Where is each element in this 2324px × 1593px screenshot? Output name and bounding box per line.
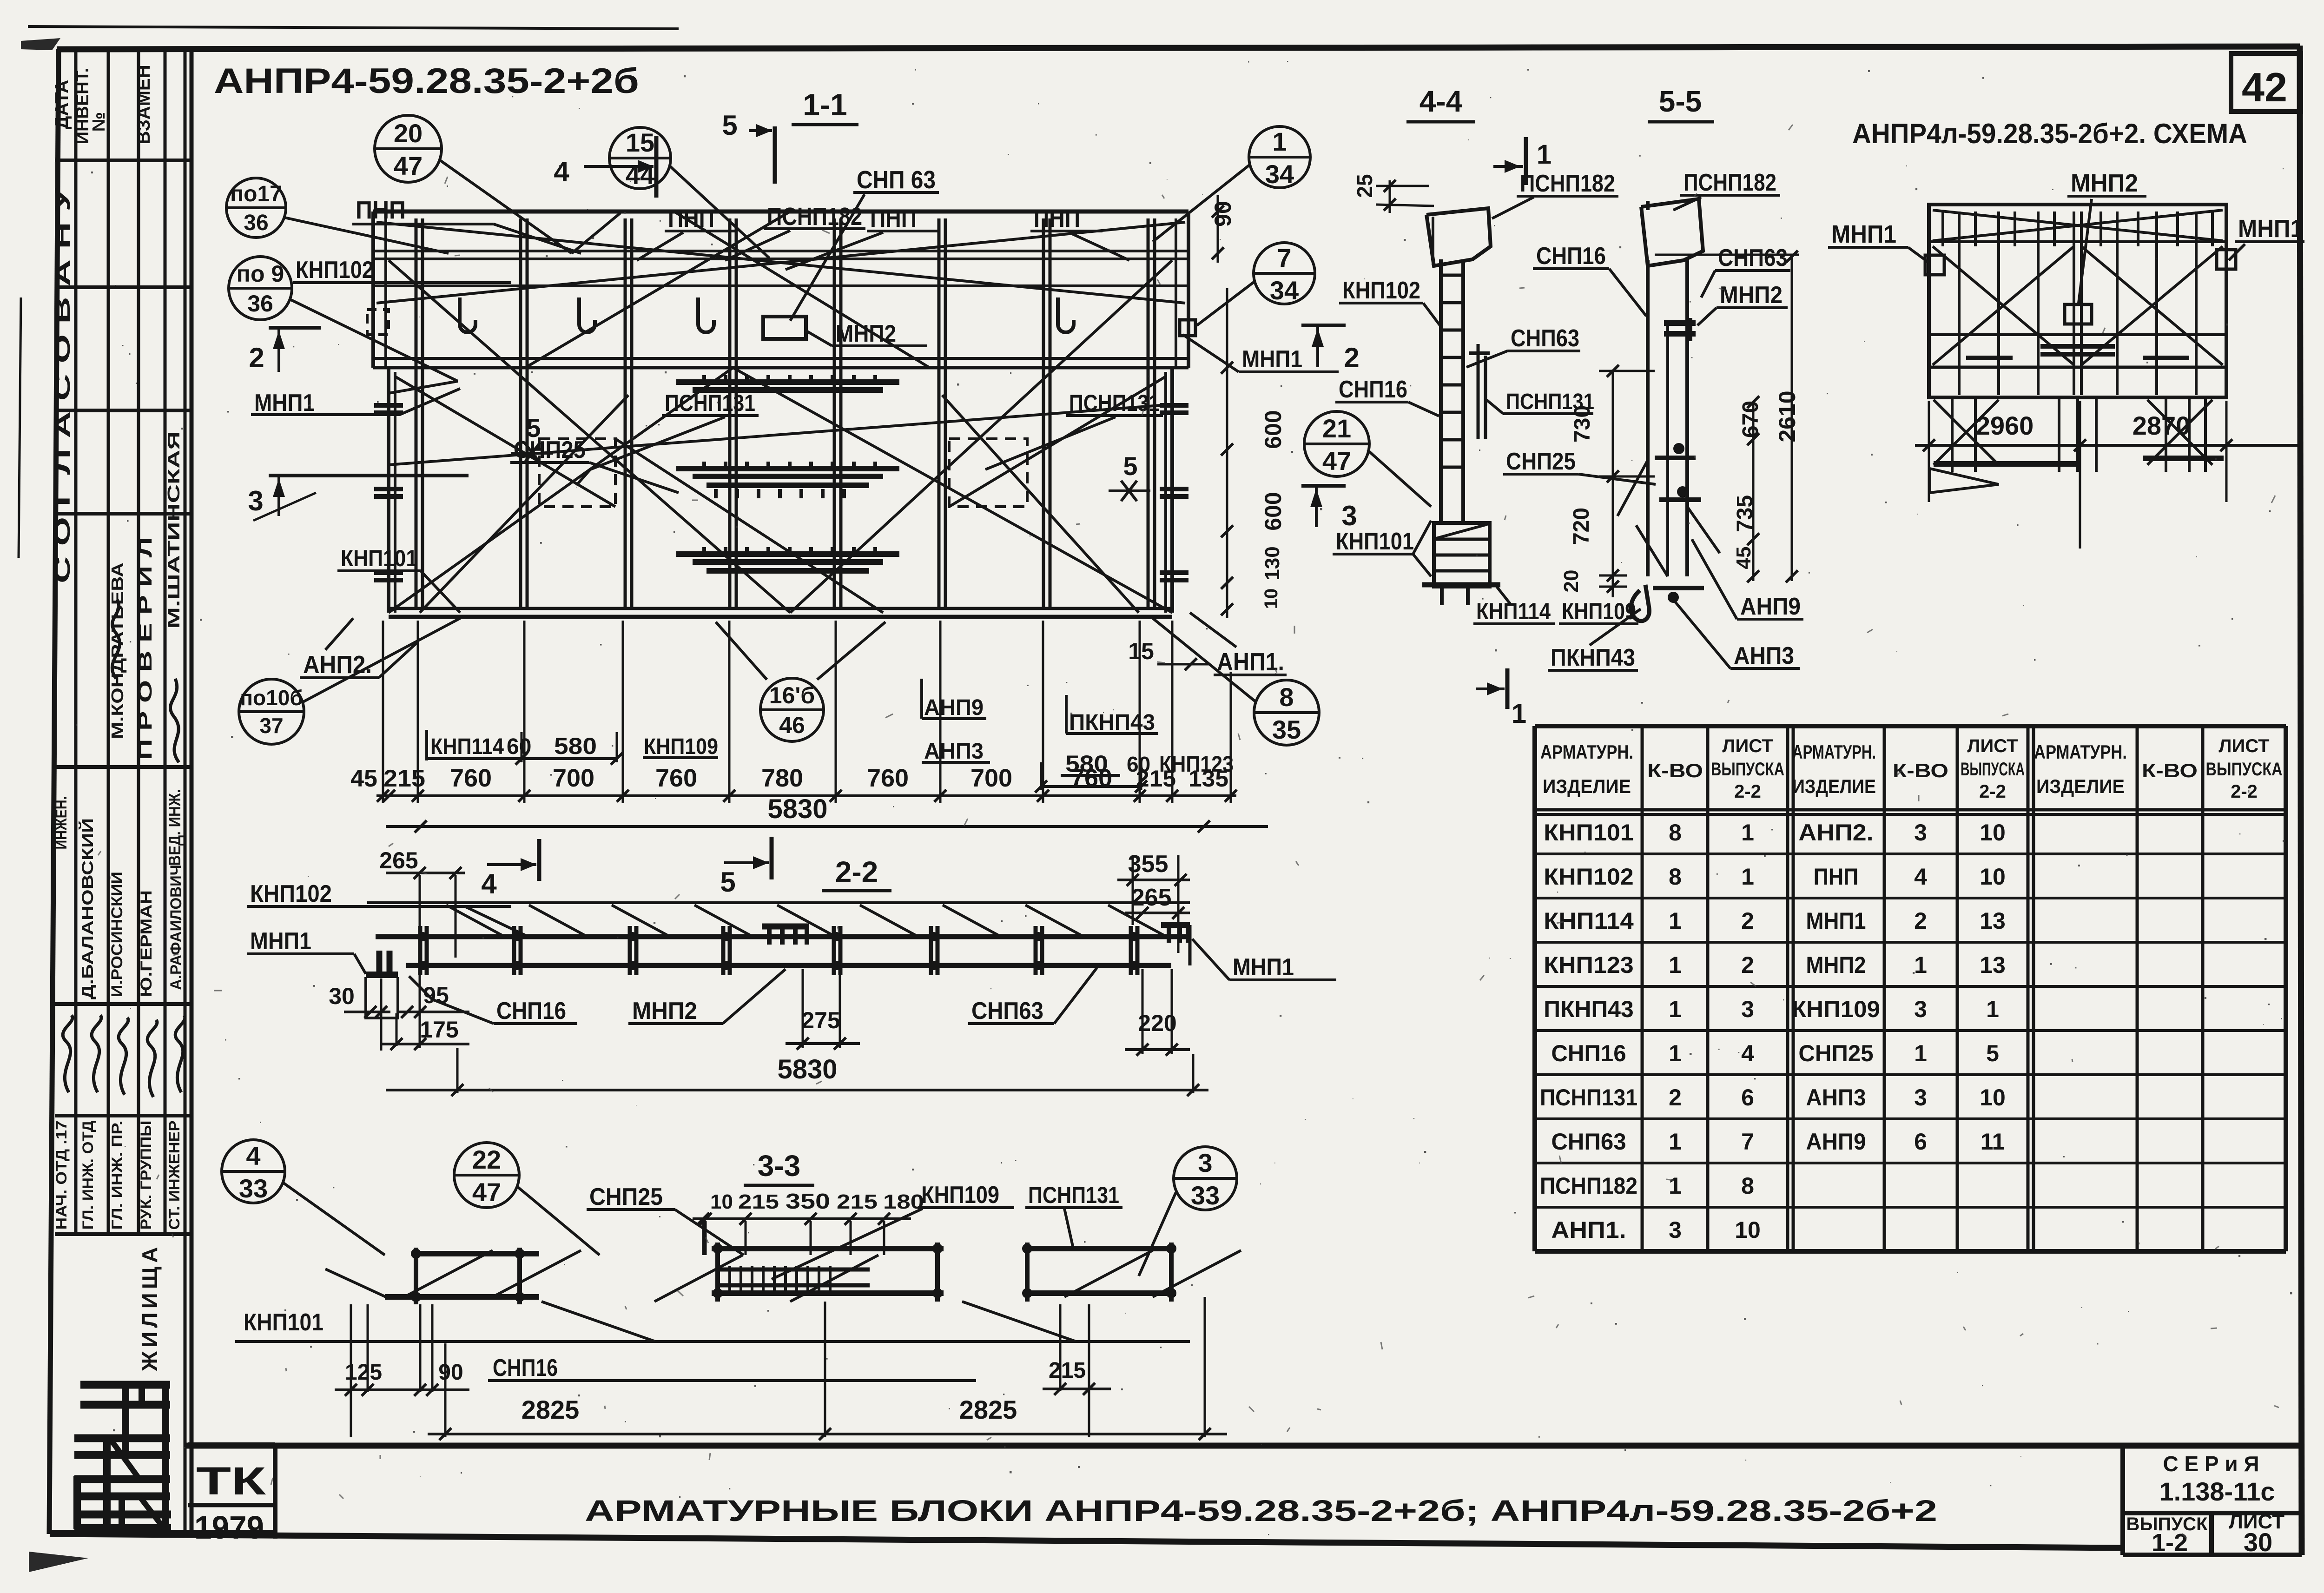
flag 3 left	[269, 474, 469, 477]
svg-text:6: 6	[1914, 1129, 1927, 1155]
svg-text:135: 135	[1188, 766, 1228, 792]
svg-text:215: 215	[738, 1190, 779, 1213]
svg-text:КНП101: КНП101	[244, 1309, 324, 1336]
5-5 lower details	[1655, 456, 1696, 460]
svg-text:АНП9: АНП9	[1806, 1129, 1866, 1155]
schema ribs	[1958, 212, 1961, 395]
bottom chord line 3-3	[488, 1379, 976, 1382]
svg-text:СНП63: СНП63	[971, 998, 1043, 1025]
svg-text:37: 37	[259, 714, 283, 738]
beam 2-2 top line	[367, 901, 1190, 904]
svg-text:СНП25: СНП25	[1798, 1040, 1873, 1066]
flag 2 left	[269, 326, 321, 330]
svg-text:ПСНП131: ПСНП131	[1069, 390, 1160, 416]
svg-text:КНП102: КНП102	[250, 880, 332, 907]
svg-text:16'б: 16'б	[769, 682, 815, 708]
beam 2-2 bottom chord	[406, 963, 1171, 968]
svg-text:№: №	[89, 112, 109, 132]
svg-text:4-4: 4-4	[1419, 85, 1463, 118]
svg-text:47: 47	[394, 151, 423, 180]
svg-text:ИЗДЕЛИЕ: ИЗДЕЛИЕ	[1792, 775, 1876, 797]
svg-text:МНП2: МНП2	[632, 998, 697, 1025]
svg-text:60: 60	[507, 734, 531, 759]
schema legs	[1951, 397, 1954, 472]
svg-text:1: 1	[1537, 139, 1552, 170]
svg-text:1: 1	[1669, 952, 1682, 978]
svg-text:АНП9: АНП9	[924, 695, 984, 720]
svg-text:МНП1: МНП1	[250, 928, 311, 955]
svg-text:по 9: по 9	[237, 261, 284, 287]
svg-text:КНП101: КНП101	[1544, 820, 1633, 846]
svg-text:МНП1: МНП1	[2238, 215, 2303, 243]
svg-text:34: 34	[1270, 276, 1299, 305]
svg-text:КНП109: КНП109	[1792, 996, 1880, 1022]
main dim row	[376, 794, 1236, 797]
dashed openings	[539, 439, 615, 507]
svg-text:1: 1	[1914, 1040, 1927, 1066]
bold bar cluster top	[676, 379, 899, 385]
svg-text:21: 21	[1322, 414, 1351, 443]
svg-text:АНП3: АНП3	[1734, 642, 1794, 669]
svg-text:355: 355	[1128, 851, 1169, 878]
svg-text:АНП2.: АНП2.	[303, 651, 372, 679]
svg-text:265: 265	[1131, 884, 1172, 911]
ref circle 1/34	[1249, 126, 1310, 188]
circle 16b/46	[760, 678, 824, 741]
svg-text:СНП16: СНП16	[496, 998, 566, 1025]
svg-text:КНП114: КНП114	[430, 734, 504, 759]
svg-text:Д.БАЛАНОВСКИЙ: Д.БАЛАНОВСКИЙ	[79, 818, 97, 999]
svg-text:ИНЖЕН.: ИНЖЕН.	[53, 796, 70, 850]
svg-text:АНП3: АНП3	[1806, 1084, 1866, 1110]
svg-text:760: 760	[867, 764, 909, 792]
svg-text:СНП16: СНП16	[1551, 1040, 1626, 1066]
svg-text:ПСНП182: ПСНП182	[1684, 169, 1776, 196]
svg-text:АНПР4л-59.28.35-2б+2. СХЕМА: АНПР4л-59.28.35-2б+2. СХЕМА	[1852, 118, 2247, 149]
svg-text:ВЗАМЕН: ВЗАМЕН	[133, 65, 154, 144]
svg-text:МНП1: МНП1	[254, 390, 315, 416]
svg-text:30: 30	[2244, 1527, 2272, 1557]
dim extension lines	[417, 621, 419, 803]
svg-text:РУК. ГРУППЫ: РУК. ГРУППЫ	[138, 1121, 154, 1230]
svg-text:780: 780	[761, 764, 803, 792]
flag 3 mid-left	[1301, 484, 1346, 488]
svg-text:К-ВО: К-ВО	[1647, 760, 1703, 781]
svg-text:45: 45	[1732, 547, 1755, 569]
svg-text:ИЗДЕЛИЕ: ИЗДЕЛИЕ	[1543, 775, 1631, 797]
svg-text:СНП25: СНП25	[1506, 448, 1576, 475]
page number box 42	[2231, 53, 2301, 112]
dim 2825 x2	[428, 1433, 1227, 1435]
svg-text:2610: 2610	[1774, 390, 1800, 442]
5-5 top flange	[1641, 199, 1703, 266]
svg-text:670: 670	[1738, 401, 1763, 438]
svg-text:2-2: 2-2	[835, 855, 878, 889]
svg-text:265: 265	[379, 847, 418, 873]
svg-text:1: 1	[1914, 952, 1927, 978]
svg-text:15: 15	[626, 128, 654, 157]
svg-text:1-1: 1-1	[803, 87, 847, 122]
svg-text:1: 1	[1741, 864, 1754, 890]
block right 3-3	[1025, 1246, 1176, 1251]
svg-text:1: 1	[1669, 996, 1682, 1022]
svg-text:215: 215	[1136, 766, 1176, 792]
svg-text:МНП1: МНП1	[1831, 220, 1896, 248]
svg-text:ВЫПУСКА: ВЫПУСКА	[1961, 759, 2025, 780]
svg-text:90: 90	[438, 1360, 463, 1385]
svg-text:СТ. ИНЖЕНЕР: СТ. ИНЖЕНЕР	[166, 1121, 183, 1230]
MNP2 anchor plate	[763, 317, 806, 339]
svg-text:5: 5	[1123, 451, 1137, 481]
ref circle 8/35	[1254, 680, 1319, 745]
plan long diagonals	[376, 222, 1185, 303]
svg-text:2825: 2825	[959, 1395, 1017, 1424]
schema MNP2 plate	[2065, 304, 2092, 324]
svg-text:ПНП: ПНП	[870, 205, 917, 232]
svg-text:2: 2	[1741, 952, 1754, 978]
flag 2 mid-left	[1301, 324, 1346, 327]
svg-text:760: 760	[1070, 764, 1112, 792]
svg-text:ПСНП131: ПСНП131	[665, 390, 755, 416]
parts table grid	[1535, 724, 2286, 728]
svg-text:11: 11	[1981, 1129, 2005, 1155]
ref circle 15/44	[609, 127, 671, 189]
svg-text:МНП2: МНП2	[2071, 169, 2138, 197]
svg-text:700: 700	[553, 764, 594, 792]
svg-text:4: 4	[481, 868, 497, 899]
MNP2 tee center	[762, 924, 809, 930]
svg-text:по10б: по10б	[240, 686, 303, 710]
plan hooks	[460, 297, 475, 332]
svg-text:580: 580	[554, 733, 597, 759]
svg-text:КНП101: КНП101	[341, 545, 417, 571]
ref circle po9/36	[229, 257, 292, 320]
5-5 PKNP43 hook	[1631, 585, 1650, 621]
edge tie marks	[374, 403, 403, 408]
svg-text:350: 350	[786, 1189, 830, 1213]
svg-text:2: 2	[1741, 908, 1754, 934]
svg-text:5: 5	[1986, 1040, 1999, 1066]
svg-text:ВЫПУСКА: ВЫПУСКА	[2206, 759, 2283, 780]
flag 5 top	[773, 126, 777, 184]
svg-text:13: 13	[1980, 952, 2006, 978]
schema bracing	[1933, 246, 2074, 365]
svg-text:по17: по17	[230, 182, 282, 206]
svg-text:3: 3	[1914, 996, 1927, 1022]
svg-text:5: 5	[720, 866, 735, 898]
svg-text:5830: 5830	[767, 794, 827, 824]
5-5 right dim chain	[1752, 401, 1755, 581]
svg-text:3: 3	[1669, 1217, 1682, 1243]
5-5 MNP2 detail	[1664, 320, 1696, 326]
svg-text:215: 215	[383, 765, 425, 792]
svg-text:47: 47	[1322, 446, 1351, 476]
svg-text:36: 36	[247, 291, 273, 317]
svg-text:20: 20	[394, 119, 423, 148]
svg-text:95: 95	[423, 982, 449, 1008]
bold bar cluster middle	[676, 466, 899, 471]
svg-text:1: 1	[1669, 1129, 1682, 1155]
svg-text:46: 46	[779, 712, 805, 738]
svg-text:СНП25: СНП25	[589, 1183, 663, 1210]
svg-text:22: 22	[472, 1145, 501, 1174]
svg-text:ПСНП182: ПСНП182	[1520, 170, 1615, 197]
schema bold bars	[2040, 344, 2115, 349]
beam 2-2 stirrups	[418, 926, 423, 975]
svg-text:45: 45	[350, 765, 377, 792]
svg-text:СНП25: СНП25	[514, 436, 586, 463]
svg-text:3: 3	[248, 485, 263, 516]
svg-text:М.ШАТИНСКАЯ: М.ШАТИНСКАЯ	[164, 431, 183, 629]
svg-text:СНП63: СНП63	[1718, 245, 1788, 271]
plan body outline	[387, 368, 390, 613]
svg-text:КНП123: КНП123	[1544, 952, 1633, 978]
svg-text:275: 275	[801, 1007, 840, 1033]
svg-text:С Е Р и Я: С Е Р и Я	[2163, 1452, 2259, 1476]
svg-text:МНП2: МНП2	[1806, 952, 1866, 978]
svg-text:С О Г Л А С О В А Н У: С О Г Л А С О В А Н У	[50, 187, 74, 583]
svg-text:ПКНП43: ПКНП43	[1551, 644, 1635, 671]
svg-text:735: 735	[1733, 495, 1757, 532]
svg-text:СНП16: СНП16	[1339, 376, 1407, 403]
svg-text:3: 3	[1914, 1084, 1927, 1110]
svg-text:ПСНП131: ПСНП131	[1540, 1084, 1637, 1110]
dim 5830 bottom of 2-2	[386, 1089, 1208, 1091]
svg-text:4: 4	[1914, 864, 1927, 890]
svg-text:КНП102: КНП102	[1342, 277, 1420, 304]
block left 3-3	[414, 1251, 539, 1256]
svg-text:1: 1	[1741, 820, 1754, 846]
flag 4 top	[654, 136, 659, 198]
svg-text:8: 8	[1279, 682, 1294, 712]
stamp signatures	[63, 1015, 73, 1092]
4-4 top flange	[1426, 208, 1491, 266]
svg-text:ЖИЛИЩА: ЖИЛИЩА	[138, 1243, 162, 1372]
svg-text:10: 10	[1980, 864, 2006, 890]
svg-text:1-2: 1-2	[2152, 1529, 2188, 1557]
svg-text:КНП102: КНП102	[296, 257, 374, 284]
svg-text:МНП1: МНП1	[1233, 954, 1294, 981]
svg-text:КНП114: КНП114	[1544, 908, 1634, 934]
svg-text:КНП101: КНП101	[1336, 528, 1414, 555]
svg-text:8: 8	[1669, 864, 1682, 890]
svg-text:2870: 2870	[2133, 411, 2191, 440]
svg-text:СНП63: СНП63	[1551, 1129, 1626, 1155]
plan top band outline	[373, 210, 1188, 214]
svg-text:КНП109: КНП109	[921, 1182, 999, 1209]
dim row 5830	[386, 825, 1268, 828]
right side dim column	[1226, 288, 1228, 618]
svg-text:ВЫПУСКА: ВЫПУСКА	[1711, 759, 1784, 780]
svg-text:АРМАТУРН.: АРМАТУРН.	[1792, 741, 1876, 763]
svg-text:1: 1	[1512, 699, 1526, 729]
svg-text:ДАТА: ДАТА	[52, 80, 72, 129]
svg-text:10: 10	[1980, 820, 2006, 846]
svg-text:СНП16: СНП16	[1536, 243, 1606, 270]
svg-text:1: 1	[1669, 908, 1682, 934]
svg-text:6: 6	[1741, 1084, 1754, 1110]
flag 5 bottom	[770, 837, 774, 879]
ref circle 21/47	[1304, 411, 1369, 476]
svg-text:4: 4	[1741, 1040, 1754, 1066]
svg-text:13: 13	[1980, 908, 2006, 934]
upper detail dim 580 left	[425, 730, 428, 760]
svg-text:2825: 2825	[522, 1395, 580, 1424]
3-3 hatch diagonals	[404, 1250, 493, 1297]
svg-text:ВЕД. ИНЖ.: ВЕД. ИНЖ.	[165, 789, 184, 866]
sheet border frame	[57, 46, 2300, 49]
svg-text:1.138-11с: 1.138-11с	[2159, 1477, 2275, 1506]
ref circle 4/33	[222, 1140, 285, 1203]
svg-text:720: 720	[1569, 508, 1594, 545]
svg-text:3: 3	[1341, 500, 1357, 531]
svg-text:1979: 1979	[194, 1509, 264, 1546]
svg-text:ЛИСТ: ЛИСТ	[1722, 736, 1773, 756]
svg-text:ТК: ТК	[196, 1459, 266, 1503]
beam 2-2 hatch diagonals	[446, 905, 502, 935]
schema MNP1 plates	[1925, 255, 1944, 275]
svg-text:2-2: 2-2	[1734, 781, 1761, 802]
svg-text:10: 10	[710, 1190, 733, 1213]
svg-text:36: 36	[244, 211, 268, 235]
svg-text:ПНП: ПНП	[668, 205, 714, 232]
svg-text:730: 730	[1570, 405, 1595, 443]
4-4 PSNP131 bars	[1477, 344, 1480, 439]
block center 3-3	[712, 1246, 944, 1251]
svg-text:215: 215	[1049, 1358, 1086, 1383]
5-5 main bars	[1646, 260, 1650, 576]
svg-text:2: 2	[1669, 1084, 1682, 1110]
svg-text:130: 130	[1261, 546, 1284, 580]
svg-text:10: 10	[1261, 588, 1281, 609]
svg-text:30: 30	[329, 983, 355, 1009]
svg-text:ПСНП131: ПСНП131	[1028, 1182, 1119, 1208]
5-5 left dim chain	[1612, 370, 1614, 597]
svg-text:Ю.ГЕРМАН: Ю.ГЕРМАН	[138, 890, 155, 997]
svg-text:АНП9: АНП9	[1740, 593, 1801, 620]
flag 1 top	[1524, 137, 1528, 185]
flag 4 bottom	[537, 839, 541, 881]
svg-text:4: 4	[554, 156, 569, 187]
svg-text:АНП1.: АНП1.	[1217, 648, 1284, 676]
svg-text:20: 20	[1560, 570, 1583, 593]
svg-text:8: 8	[1669, 820, 1682, 846]
TK box	[188, 1442, 275, 1447]
beam 2-2 top chord	[376, 934, 1190, 939]
svg-text:5830: 5830	[777, 1054, 837, 1084]
svg-text:2: 2	[1344, 342, 1359, 373]
4-4 bottom box KNP101	[1434, 523, 1490, 587]
svg-text:МНП2: МНП2	[1720, 282, 1783, 309]
svg-text:3: 3	[1198, 1148, 1212, 1177]
svg-text:ПКНП43: ПКНП43	[1544, 996, 1633, 1022]
svg-text:АНПР4-59.28.35-2+2б: АНПР4-59.28.35-2+2б	[214, 61, 639, 101]
svg-text:33: 33	[1191, 1181, 1220, 1210]
flag 1 bottom	[1505, 668, 1510, 709]
svg-text:ПКНП43: ПКНП43	[1069, 710, 1155, 735]
svg-text:10: 10	[1735, 1217, 1761, 1243]
svg-text:К-ВО: К-ВО	[2142, 760, 2198, 781]
svg-text:1: 1	[1669, 1173, 1682, 1199]
scan artifacts	[28, 26, 679, 29]
svg-text:СНП 63: СНП 63	[857, 166, 936, 194]
svg-text:ИНВЕНТ.: ИНВЕНТ.	[73, 68, 92, 144]
svg-text:АРМАТУРН.: АРМАТУРН.	[1540, 741, 1633, 763]
svg-text:СНП16: СНП16	[493, 1355, 558, 1381]
bold bar cluster bottom	[676, 551, 899, 557]
svg-text:7: 7	[1741, 1129, 1754, 1155]
ref circle 3/33	[1174, 1147, 1237, 1210]
svg-text:АРМАТУРН.: АРМАТУРН.	[2034, 741, 2127, 763]
svg-text:ГЛ. ИНЖ. ПР.: ГЛ. ИНЖ. ПР.	[109, 1121, 125, 1230]
svg-text:ПСНП182: ПСНП182	[767, 203, 862, 231]
svg-text:КНП102: КНП102	[1544, 864, 1633, 890]
svg-text:34: 34	[1265, 159, 1294, 189]
svg-text:ГЛ. ИНЖ. ОТД: ГЛ. ИНЖ. ОТД	[79, 1120, 96, 1229]
svg-text:760: 760	[655, 764, 697, 792]
schema outer box	[1929, 205, 2226, 397]
svg-text:АНП3: АНП3	[924, 739, 984, 764]
svg-text:МНП2: МНП2	[836, 320, 896, 347]
svg-text:АНП1.: АНП1.	[1551, 1217, 1626, 1243]
svg-text:215: 215	[837, 1190, 878, 1213]
svg-text:2: 2	[249, 342, 264, 373]
svg-text:НАЧ. ОТД .17: НАЧ. ОТД .17	[53, 1121, 70, 1230]
plan vertical rib pairs	[415, 218, 418, 609]
svg-text:10: 10	[1980, 1084, 2006, 1110]
svg-text:А.РАФАИЛОВИЧ: А.РАФАИЛОВИЧ	[167, 865, 185, 990]
svg-text:4: 4	[246, 1141, 260, 1170]
right edge small square	[1180, 320, 1195, 336]
svg-text:2960: 2960	[1976, 411, 2034, 440]
svg-text:3-3: 3-3	[758, 1149, 801, 1183]
left dashed square	[367, 310, 389, 335]
svg-text:25: 25	[1353, 174, 1377, 198]
ref circle 20/47	[375, 115, 442, 182]
svg-text:2: 2	[1914, 908, 1927, 934]
svg-text:2-2: 2-2	[1979, 781, 2006, 802]
left stamp strip grid	[74, 49, 78, 1234]
ref circle 7/34	[1254, 243, 1315, 304]
4-4 cage ladder	[1439, 259, 1443, 523]
svg-text:МНП1: МНП1	[1242, 346, 1302, 373]
svg-text:СНП63: СНП63	[1511, 325, 1579, 352]
svg-text:42: 42	[2242, 64, 2287, 110]
title separator line	[186, 1443, 2300, 1449]
svg-text:5: 5	[722, 110, 737, 141]
svg-text:3: 3	[1741, 996, 1754, 1022]
svg-text:ПНП: ПНП	[1814, 864, 1859, 890]
ref circle po10b/37	[239, 679, 304, 744]
svg-text:АРМАТУРНЫЕ БЛОКИ АНПР4-59.28.3: АРМАТУРНЫЕ БЛОКИ АНПР4-59.28.35-2+2б; АН…	[585, 1494, 1937, 1527]
svg-text:П Р О В Е Р И Л: П Р О В Е Р И Л	[135, 537, 156, 760]
svg-text:3: 3	[1914, 820, 1927, 846]
ref circle 22/47	[454, 1143, 519, 1208]
svg-text:КНП109: КНП109	[644, 734, 718, 759]
svg-text:47: 47	[472, 1177, 501, 1207]
svg-text:1: 1	[1272, 127, 1287, 156]
svg-text:ПСНП182: ПСНП182	[1540, 1173, 1637, 1199]
svg-text:33: 33	[239, 1174, 268, 1203]
svg-text:8: 8	[1741, 1173, 1754, 1199]
MNP1 tee right end	[1161, 922, 1190, 928]
svg-text:2-2: 2-2	[2231, 781, 2258, 802]
svg-text:5-5: 5-5	[1659, 85, 1702, 118]
svg-text:ЛИСТ: ЛИСТ	[1967, 736, 2018, 756]
svg-text:7: 7	[1277, 243, 1291, 272]
svg-text:700: 700	[971, 764, 1012, 792]
svg-text:1: 1	[1669, 1040, 1682, 1066]
